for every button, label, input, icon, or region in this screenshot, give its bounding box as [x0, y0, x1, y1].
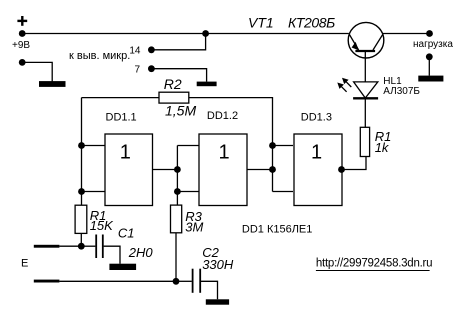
svg-text:DD1 К156ЛЕ1: DD1 К156ЛЕ1	[242, 223, 313, 235]
transistor VT1 circle	[348, 22, 384, 58]
wire LED anode to transistor base	[364, 51, 366, 82]
node DD1.1 input 2	[78, 188, 85, 195]
terminal E top bar	[34, 245, 60, 248]
wire DD1.1 input bus	[81, 98, 83, 206]
capacitor C1 left plate	[95, 235, 97, 259]
svg-text:1,5М: 1,5М	[165, 103, 196, 119]
wire collector to load	[383, 33, 430, 35]
node R1/C1/E junction	[78, 243, 85, 250]
resistor R2 body	[159, 92, 189, 103]
node DD1.1 output junction	[174, 166, 181, 173]
wire R2 right to DD1.2 output bus	[189, 98, 273, 146]
svg-text:нагрузка: нагрузка	[413, 39, 453, 50]
wire DD1.2 output	[247, 169, 273, 171]
wire C1 to ground	[104, 246, 120, 264]
svg-text:2Н0: 2Н0	[128, 245, 154, 260]
LED emission arrow 1	[337, 83, 346, 92]
ground bar load	[418, 76, 443, 82]
node DD1.2 input 2 junction	[174, 188, 181, 195]
wire load terminal to ground	[428, 57, 430, 76]
node DD1.2 output junction	[269, 166, 276, 173]
wire C2 to ground	[201, 281, 218, 299]
wire R1 1k top to LED cathode	[364, 99, 366, 127]
wire pin 7 to ground	[151, 69, 206, 82]
node pin 7	[148, 65, 155, 72]
node DD1.3 input 1 junction	[269, 142, 276, 149]
gate DD1.3 box	[294, 134, 342, 206]
node R3/C2/E junction	[173, 278, 180, 285]
resistor R3 body	[171, 205, 182, 233]
wire node to C1	[81, 245, 95, 247]
junction rail / pin14	[202, 30, 209, 37]
ground bar C2	[206, 299, 229, 304]
wire R3 bottom to C2 node	[175, 233, 177, 281]
node pin 14	[148, 46, 155, 53]
transistor VT1 emitter arrow (PNP)	[352, 42, 359, 51]
wire DD1.2 input 2 stub	[177, 191, 199, 193]
wire battery minus to ground	[22, 62, 52, 81]
svg-text:DD1.2: DD1.2	[207, 110, 238, 122]
node load terminal bottom	[426, 53, 433, 60]
wire E bottom to C2	[59, 280, 176, 282]
resistor R1 1k body	[360, 127, 369, 156]
node load terminal top	[426, 30, 433, 37]
wire DD1.1 input 2 stub	[82, 191, 106, 193]
wire DD1.2 input bus	[176, 146, 178, 206]
gate DD1.2 box	[199, 134, 247, 206]
wire E top terminal to node	[59, 245, 81, 247]
svg-text:к выв. микр.: к выв. микр.	[69, 50, 130, 62]
svg-text:330Н: 330Н	[202, 257, 234, 272]
gate DD1.1 box	[105, 134, 153, 206]
capacitor C2 right plate	[199, 269, 201, 293]
svg-text:DD1.3: DD1.3	[301, 111, 332, 123]
node DD1.3 output	[338, 166, 345, 173]
svg-text:C1: C1	[118, 225, 135, 240]
svg-text:15K: 15K	[90, 218, 114, 233]
svg-text:1k: 1k	[375, 140, 390, 155]
battery plus symbol	[17, 16, 27, 26]
ground bar C1	[109, 264, 136, 270]
node battery minus terminal	[19, 59, 26, 66]
LED HL1 triangle	[354, 82, 378, 98]
terminal E bottom bar	[34, 280, 60, 283]
svg-text:1: 1	[120, 142, 131, 164]
LED emission arrow 2	[342, 78, 351, 87]
wire DD1.3 output to R1 1k	[342, 157, 367, 170]
wire node to C2	[176, 280, 192, 282]
svg-text:14: 14	[129, 46, 141, 57]
transistor VT1 base bar	[355, 50, 375, 52]
svg-text:1: 1	[311, 142, 322, 164]
wire DD1.3 input 2 stub	[273, 191, 294, 193]
resistor R1 15K body	[75, 205, 87, 233]
wire +9V rail	[22, 33, 349, 35]
svg-text:3М: 3М	[185, 219, 203, 234]
capacitor C2 left plate	[192, 269, 194, 293]
wire R2 left	[82, 97, 160, 99]
svg-text:DD1.1: DD1.1	[106, 112, 137, 124]
wire DD1.1 input 1 stub	[82, 145, 106, 147]
LED HL1 cathode bar	[353, 97, 378, 99]
node DD1.1 input 1	[78, 142, 85, 149]
ground bar battery	[39, 81, 66, 87]
wire R1 bottom to node	[80, 233, 82, 246]
svg-text:Е: Е	[21, 257, 28, 269]
wire DD1.3 input bus	[272, 146, 274, 192]
svg-text:КТ208Б: КТ208Б	[288, 15, 335, 31]
transistor VT1 emitter line	[349, 35, 358, 51]
svg-text:АЛ307Б: АЛ307Б	[383, 86, 420, 97]
wire DD1.1 output	[153, 169, 178, 171]
node battery plus terminal	[19, 30, 26, 37]
svg-text:+9В: +9В	[12, 40, 30, 51]
wire pin 14 to rail	[151, 34, 205, 50]
wire DD1.2 input 1 stub	[177, 145, 199, 147]
svg-text:R2: R2	[164, 76, 182, 92]
svg-text:1: 1	[218, 142, 229, 164]
capacitor C1 right plate	[102, 235, 104, 259]
ground bar pin 7	[197, 82, 217, 87]
svg-text:http://299792458.3dn.ru: http://299792458.3dn.ru	[316, 257, 432, 269]
transistor VT1 collector line	[373, 35, 383, 51]
wire DD1.3 input 1 stub	[273, 145, 294, 147]
svg-text:7: 7	[134, 64, 140, 75]
svg-text:VT1: VT1	[248, 15, 274, 31]
link underline	[316, 270, 430, 272]
